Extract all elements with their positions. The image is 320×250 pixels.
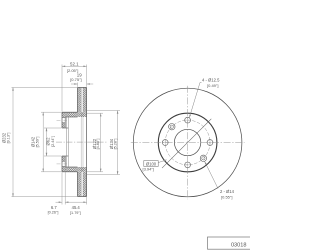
hat interior seen edges: [67, 117, 69, 167]
bolt hole centerline top (section): [57, 119, 68, 121]
flange mount face: [61, 112, 63, 172]
dim 45.4 dimension line: [65, 201, 86, 203]
dim bore 62: extension lines: [44, 128, 62, 156]
hat circle: [158, 113, 217, 172]
disc outer plate (hatched): [78, 88, 82, 113]
boxed label dia100: [142, 160, 166, 172]
svg-text:03018: 03018: [231, 243, 247, 249]
vent gap walls: [81, 88, 83, 197]
svg-text:[0.75"]: [0.75"]: [70, 77, 81, 82]
dim right 2: extension lines: [87, 111, 120, 175]
bore top edge: [62, 127, 68, 129]
flange wall bottom (hatched, with bolt hole gap): [62, 156, 65, 161]
svg-text:52.1: 52.1: [70, 61, 79, 66]
hat outer surface top: [62, 111, 78, 113]
hat inner surface bottom: [65, 166, 77, 168]
flange inner face: [64, 117, 66, 167]
dim OD: extension lines: [12, 88, 78, 197]
svg-text:45.4: 45.4: [72, 205, 81, 210]
svg-text:Ø100: Ø100: [146, 161, 157, 166]
dim right 2 dimension line: [117, 111, 119, 175]
svg-text:[2.44"]: [2.44"]: [51, 136, 55, 147]
svg-text:6.7: 6.7: [51, 205, 57, 210]
svg-text:Ø62: Ø62: [46, 137, 51, 146]
screw hole NW (double circle): [169, 124, 175, 130]
dim OD dimension line: [12, 88, 14, 197]
dim right 1 dimension line: [100, 113, 102, 172]
horizontal centerline: [131, 142, 245, 144]
bolt hole N: [184, 117, 191, 124]
svg-text:[9.13"]: [9.13"]: [7, 133, 11, 144]
dim 52.1 top: extension lines: [62, 65, 87, 112]
dim 52.1 dimension line: [62, 65, 87, 67]
centerline left view: [56, 141, 108, 143]
svg-text:[5.28"]: [5.28"]: [113, 139, 117, 150]
bolt hole in flange (section) top: [62, 118, 65, 123]
disc outline left face: [77, 88, 79, 197]
dim right 1: extension lines: [87, 113, 103, 172]
title block box: [208, 237, 253, 249]
dim hat OD dimension line: [42, 112, 44, 172]
svg-text:[0.55"]: [0.55"]: [221, 194, 232, 199]
leader from box to PCD: [158, 160, 166, 163]
dim 6.7 outside arrow: [56, 201, 62, 203]
hat outer surface bottom: [62, 171, 78, 173]
svg-text:[4.80"]: [4.80"]: [96, 139, 100, 150]
dim hat OD left: extension lines: [41, 112, 62, 172]
svg-text:[3.94"]: [3.94"]: [142, 167, 153, 172]
disc outline right face: [86, 88, 88, 197]
bolt hole centerline bottom (section): [57, 163, 68, 165]
hat top band (hatched): [62, 112, 87, 117]
leader 2-dia14: [205, 161, 218, 188]
leader 4-dia12.5: [189, 83, 201, 118]
PCD dashed circle: [165, 120, 210, 165]
bolt hole S: [184, 161, 191, 168]
bolt hole W: [162, 139, 169, 146]
bore bottom edge: [62, 155, 68, 157]
outer circle: [133, 88, 242, 197]
svg-text:[0.26"]: [0.26"]: [48, 211, 59, 215]
hat inner surface top: [65, 116, 77, 118]
bottom dims extension lines: [62, 168, 87, 205]
bolt hole E: [207, 139, 214, 146]
svg-text:[0.49"]: [0.49"]: [207, 83, 218, 88]
dim bore 62 dimension line: [46, 128, 48, 156]
svg-text:[5.59"]: [5.59"]: [36, 137, 40, 148]
45 degree section line: [162, 119, 211, 168]
bolt hole in flange (section) bottom: [62, 161, 65, 166]
disc top and bottom edges: [78, 88, 87, 197]
svg-text:4 - Ø12.5: 4 - Ø12.5: [202, 77, 220, 82]
svg-text:[1.79"]: [1.79"]: [70, 211, 81, 215]
dim 19 outside arrows: [71, 83, 77, 85]
svg-text:2 - Ø14: 2 - Ø14: [220, 189, 235, 194]
flange wall top (hatched, with bolt hole gap): [62, 116, 65, 119]
dim 19 extension line: [77, 83, 79, 87]
screw hole SE (double circle): [200, 155, 206, 161]
vertical centerline: [187, 86, 189, 199]
disc inner plate (hatched): [83, 88, 87, 113]
hat bottom band (hatched): [62, 167, 87, 172]
bore circle: [174, 129, 200, 155]
